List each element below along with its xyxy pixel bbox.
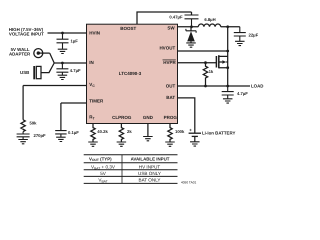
ground (4.7uF IN) — [58, 75, 68, 79]
svg-text:BAT ONLY: BAT ONLY — [139, 178, 161, 183]
IC U1 LTC4090-3 body — [87, 24, 178, 123]
capacitor 4.7uF (IN) — [56, 63, 68, 75]
wire HVIN rail — [48, 32, 87, 34]
svg-text:USB ONLY: USB ONLY — [138, 171, 161, 176]
svg-text:LOAD: LOAD — [251, 84, 263, 89]
capacitor 0.1uF — [55, 131, 66, 137]
svg-text:4090 TA01: 4090 TA01 — [181, 181, 197, 185]
wire USB to IN node — [41, 63, 54, 73]
wire BAT — [178, 98, 195, 133]
ground (TIMER cap) — [56, 137, 66, 141]
ground (VC network) — [18, 140, 28, 144]
svg-text:HVIN: HVIN — [89, 31, 100, 36]
wire OUT rail — [178, 85, 251, 87]
svg-text:4.7µF: 4.7µF — [237, 91, 248, 96]
resistor 2k (CLPROG) — [119, 124, 123, 143]
svg-text:6.8µH: 6.8µH — [204, 17, 215, 22]
wire GND pin — [147, 124, 149, 137]
wire BOOST — [137, 12, 192, 24]
svg-text:1µF: 1µF — [71, 39, 79, 44]
node L-out junction — [226, 25, 229, 28]
wire adapter to IN node — [50, 53, 55, 63]
svg-text:4.7µF: 4.7µF — [70, 68, 81, 73]
svg-text:OUT: OUT — [166, 84, 176, 89]
svg-text:AVAILABLE INPUT: AVAILABLE INPUT — [131, 156, 170, 161]
svg-text:+: + — [189, 127, 192, 132]
transistor Q1 PMOS — [216, 55, 227, 68]
ground (GND pin) — [143, 137, 153, 141]
capacitor 1uF — [57, 33, 69, 49]
svg-text:Li-Ion BATTERY: Li-Ion BATTERY — [202, 131, 235, 136]
resistor 1k — [203, 63, 207, 86]
node SW junction — [190, 25, 193, 28]
svg-text:40.2k: 40.2k — [97, 129, 108, 134]
svg-text:GND: GND — [143, 115, 154, 120]
node IN junction — [61, 62, 64, 65]
svg-text:5V: 5V — [100, 171, 107, 176]
ground (CLPROG) — [117, 142, 127, 146]
inductor L1 6.8uH — [198, 24, 220, 27]
svg-text:ADAPTER: ADAPTER — [9, 52, 31, 57]
resistor 40.2k (RT) — [91, 124, 95, 143]
svg-text:IN: IN — [89, 60, 94, 65]
svg-text:2k: 2k — [127, 129, 132, 134]
svg-text:VC: VC — [89, 82, 95, 88]
ground (RT) — [88, 142, 98, 146]
ground (PROG) — [165, 142, 175, 146]
svg-text:59k: 59k — [30, 121, 38, 126]
svg-text:VOLTAGE INPUT: VOLTAGE INPUT — [9, 32, 44, 37]
svg-text:HV INPUT: HV INPUT — [139, 165, 161, 170]
capacitor 4.7uF (OUT) — [222, 86, 234, 99]
ground (diode) — [186, 43, 196, 47]
svg-text:SW: SW — [167, 25, 175, 30]
svg-text:0.47µF: 0.47µF — [169, 15, 183, 20]
node 1k-OUT junction — [204, 85, 207, 88]
wire SW rail — [178, 26, 240, 28]
wire HVOUT — [178, 50, 228, 52]
ground (1uF) — [58, 49, 68, 53]
capacitor 270pF — [17, 132, 30, 140]
svg-text:VOUT (TYP): VOUT (TYP) — [89, 156, 112, 162]
svg-text:100k: 100k — [175, 129, 185, 134]
svg-text:HVOUT: HVOUT — [159, 46, 175, 51]
svg-text:RT: RT — [89, 115, 95, 121]
wall adapter plug P1 — [34, 49, 50, 58]
svg-text:PROG: PROG — [164, 115, 178, 120]
capacitor 0.47uF — [185, 15, 199, 27]
svg-text:VBAT: VBAT — [98, 178, 107, 184]
svg-text:USB: USB — [20, 70, 29, 75]
svg-text:1k: 1k — [209, 69, 214, 74]
svg-text:0.1µF: 0.1µF — [68, 130, 79, 135]
svg-text:22µF: 22µF — [249, 32, 259, 37]
svg-text:LTC4090-3: LTC4090-3 — [119, 71, 142, 76]
svg-text:VBAT + 0.3V: VBAT + 0.3V — [91, 165, 116, 171]
ground (22uF) — [235, 41, 245, 45]
diode D1 Schottky — [186, 27, 196, 43]
wire HVPR gate — [178, 62, 217, 64]
resistor 59k — [21, 120, 25, 132]
capacitor 22uF — [234, 27, 246, 41]
battery BT1 Li-Ion — [189, 133, 201, 141]
wire HV vertical rail — [227, 27, 229, 86]
svg-text:CLPROG: CLPROG — [112, 115, 132, 120]
table rules — [84, 155, 178, 184]
svg-text:TIMER: TIMER — [89, 98, 104, 103]
node HVIN junction — [61, 32, 64, 35]
ground (battery) — [190, 142, 200, 146]
svg-text:BOOST: BOOST — [120, 26, 136, 31]
node gate junction — [204, 61, 207, 64]
resistor 100k (PROG) — [168, 124, 172, 143]
svg-text:BAT: BAT — [166, 95, 175, 100]
svg-text:270pF: 270pF — [34, 133, 47, 138]
USB connector J1 — [33, 66, 41, 79]
ground (OUT cap) — [223, 99, 233, 103]
wire VC — [23, 86, 86, 120]
svg-text:HVPR: HVPR — [163, 60, 176, 65]
node OUT cap junction — [226, 85, 229, 88]
node Q1 drain junction — [226, 66, 229, 69]
wire IN rail — [54, 62, 86, 64]
wire TIMER — [61, 103, 87, 131]
node HVOUT junction — [226, 50, 229, 53]
